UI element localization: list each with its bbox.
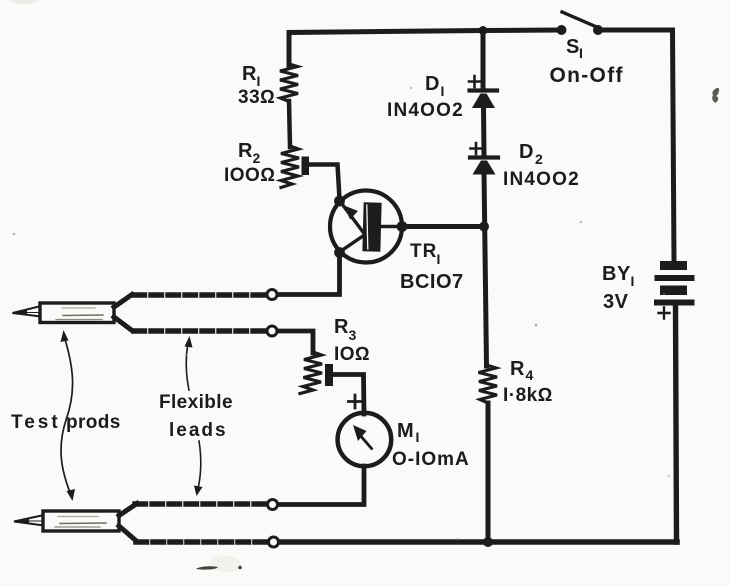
resistor R4: [479, 365, 498, 403]
node terminal circle upper lead 1: [267, 290, 277, 300]
svg-text:On-Off: On-Off: [550, 64, 624, 87]
node terminal circle upper lead 2: [267, 326, 277, 336]
svg-text:2: 2: [253, 150, 261, 166]
resistor R2 (rheostat): [281, 146, 309, 188]
label Flexible leads: [159, 392, 233, 441]
label Test prods: [11, 412, 121, 433]
node base junction dot: [479, 222, 489, 232]
label M1: [397, 420, 419, 445]
label BY1: [602, 263, 634, 289]
svg-text:3: 3: [349, 327, 357, 343]
svg-text:33Ω: 33Ω: [238, 87, 275, 108]
transistor TR1: [330, 191, 402, 263]
resistor R1: [280, 64, 298, 102]
wire R4 to bottom rail: [486, 403, 491, 542]
svg-text:BCIO7: BCIO7: [400, 271, 464, 293]
svg-text:3V: 3V: [603, 291, 629, 313]
svg-text:IOOΩ: IOOΩ: [224, 165, 275, 186]
svg-text:M: M: [397, 420, 414, 442]
svg-text:I: I: [631, 273, 635, 289]
test prod upper: [13, 295, 133, 331]
svg-text:I: I: [579, 45, 583, 61]
wire R2 wiper to transistor: [309, 165, 340, 200]
svg-text:R: R: [510, 358, 525, 380]
svg-text:I·8kΩ: I·8kΩ: [503, 385, 553, 406]
label S1: [566, 36, 583, 61]
svg-text:O-IOmA: O-IOmA: [392, 449, 470, 470]
svg-text:R: R: [242, 63, 257, 85]
node bottom junction dot: [483, 537, 493, 547]
label R4: [510, 358, 534, 383]
svg-text:prods: prods: [66, 412, 121, 433]
wire dashed lower lead 2: [136, 539, 266, 545]
node terminal circle lower lead 1: [268, 500, 278, 510]
node terminal circle lower lead 2: [269, 537, 279, 547]
wire dashed upper lead 1: [134, 292, 266, 297]
resistor R3 (rheostat): [300, 352, 333, 394]
label meter plus: [349, 395, 362, 408]
svg-text:Test: Test: [11, 412, 61, 433]
label R1: [242, 63, 260, 89]
wire R3 wiper to meter: [333, 375, 364, 415]
wire dashed lower lead 1: [135, 501, 266, 506]
annotation arrow to prods (double-headed curve): [61, 330, 76, 501]
svg-text:S: S: [566, 36, 579, 58]
label battery plus: [659, 308, 670, 319]
svg-text:R: R: [238, 140, 253, 162]
test prod lower: [14, 504, 137, 542]
wire D2 to R4: [484, 172, 487, 366]
diode D1: [469, 76, 497, 108]
label D1: [425, 73, 444, 99]
svg-text:BY: BY: [602, 263, 631, 285]
wire diode chain top: [481, 31, 486, 90]
diode D2: [470, 143, 498, 175]
wire top rail right segment: [602, 30, 674, 261]
svg-text:TR: TR: [410, 241, 437, 262]
node emitter dot: [334, 196, 345, 207]
switch S1: [557, 12, 604, 35]
svg-text:leads: leads: [169, 420, 228, 441]
wire D1 to D2: [481, 106, 487, 155]
svg-text:2: 2: [535, 151, 543, 167]
battery BY1: [654, 261, 695, 306]
wire bottom rail: [280, 539, 677, 545]
wire top rail left segment: [289, 30, 558, 65]
node base dot: [397, 221, 408, 232]
label TR1: [410, 241, 440, 267]
node top junction dot: [479, 26, 488, 35]
svg-text:Flexible: Flexible: [159, 392, 233, 413]
svg-text:I: I: [416, 429, 420, 445]
label R2: [238, 140, 261, 166]
svg-text:D: D: [425, 73, 439, 95]
svg-text:R: R: [334, 316, 349, 338]
wire dashed upper lead 2: [134, 328, 266, 333]
svg-text:IN4OO2: IN4OO2: [503, 169, 580, 190]
annotation arrow to lower leads: [194, 441, 203, 496]
wire base to diode chain: [402, 224, 486, 229]
label R3: [334, 316, 357, 343]
wire battery to bottom rail: [676, 305, 677, 542]
meter M1: [338, 413, 392, 467]
wire collector to upper lead: [279, 252, 340, 295]
node collector dot: [334, 247, 345, 258]
svg-text:4: 4: [526, 367, 534, 383]
svg-text:D: D: [519, 141, 533, 163]
svg-text:IOΩ: IOΩ: [334, 344, 370, 365]
annotation arrow to upper leads: [185, 336, 193, 390]
svg-text:I: I: [441, 83, 445, 99]
label D2: [519, 141, 543, 167]
wire R1 to R2: [289, 101, 290, 147]
wire meter to lower lead 1: [280, 466, 364, 505]
svg-text:I: I: [437, 251, 441, 267]
svg-text:IN4OO2: IN4OO2: [387, 100, 464, 121]
wire upper lead 2 to R3: [279, 331, 313, 353]
